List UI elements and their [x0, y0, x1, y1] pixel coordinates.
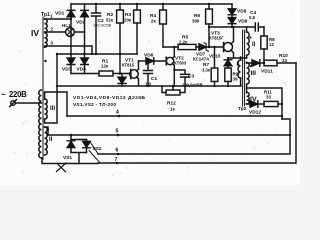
svg-text:51к: 51к [106, 18, 114, 23]
switch X mark [57, 163, 67, 172]
wire winding II T1 top to wire5 [45, 127, 48, 135]
svg-text:1,0: 1,0 [145, 82, 152, 87]
lamp HL1 [66, 28, 75, 37]
svg-text:33: 33 [266, 95, 271, 100]
svg-text:Тр1: Тр1 [41, 12, 50, 18]
svg-text:VD2: VD2 [76, 20, 86, 26]
resistor R2 [119, 4, 121, 74]
wire VT3 emitter row [228, 57, 247, 59]
diode VD10 [224, 58, 232, 60]
svg-text:VS1,VS2 - ТЛ-200: VS1,VS2 - ТЛ-200 [73, 102, 116, 108]
thyristor VS1 [67, 142, 75, 148]
wire gate row VD11 [247, 62, 296, 64]
svg-text:VD4: VD4 [77, 67, 87, 73]
svg-text:6: 6 [116, 148, 119, 154]
resistor R5 [178, 44, 196, 49]
wire T2-IV top row [247, 88, 282, 119]
transformer T2 core [243, 30, 245, 106]
transformer T1 winding II [45, 127, 48, 155]
wire feedback row27 [209, 26, 255, 28]
resistor R12 [162, 86, 185, 93]
diode VD4 [84, 54, 86, 58]
svg-text:VS1: VS1 [63, 155, 72, 161]
svg-text:7: 7 [115, 157, 118, 163]
svg-text:1к: 1к [170, 107, 175, 112]
resistor R1 [99, 71, 113, 76]
diode VD9 [228, 18, 236, 24]
wire zener row [163, 46, 224, 48]
svg-text:5: 5 [116, 129, 119, 135]
diode VD8 [231, 4, 233, 9]
svg-text:VD12: VD12 [249, 110, 261, 116]
svg-text:VD8: VD8 [237, 9, 247, 15]
output wire with switch [42, 158, 98, 164]
svg-text:C3: C3 [188, 74, 194, 80]
transformer T2 winding I [238, 60, 241, 78]
svg-text:0,5: 0,5 [249, 15, 256, 20]
svg-text:1: 1 [50, 14, 53, 19]
svg-text:КТ503: КТ503 [174, 61, 187, 66]
svg-text:VD1-VD4,VD8-VD13 Д226Б: VD1-VD4,VD8-VD13 Д226Б [73, 95, 146, 101]
main lower rail [57, 85, 241, 87]
svg-text:3: 3 [51, 41, 54, 46]
diode VD12 [250, 101, 258, 107]
wire pin3 row [45, 46, 92, 54]
VS1 gate wire [89, 151, 100, 163]
wire winding III top to wire4 [45, 92, 67, 116]
svg-text:12: 12 [269, 42, 274, 47]
transformer T1 winding III [45, 99, 48, 119]
svg-text:3,3к: 3,3к [202, 68, 211, 73]
svg-text:КС147А: КС147А [193, 57, 210, 62]
wire R1 row [71, 73, 131, 75]
transformer T2 winding III [247, 63, 250, 85]
resistor R8 [263, 27, 265, 63]
resistor R4 [162, 4, 164, 47]
svg-text:390: 390 [192, 19, 200, 24]
svg-text:20к: 20к [124, 18, 132, 23]
svg-text:33: 33 [282, 58, 287, 63]
wire 6 [98, 119, 290, 154]
wire minus bus [57, 53, 137, 55]
capacitor C4 [255, 23, 264, 31]
thyristor VS2 [86, 140, 88, 142]
diode VD2 [81, 4, 89, 54]
svg-text:III: III [50, 106, 55, 112]
VS2 gate wire [90, 142, 98, 153]
wire top bus [71, 3, 232, 5]
capacitor C3 [174, 70, 189, 86]
diode VD6 [139, 60, 147, 62]
transistor VT3 [224, 43, 233, 52]
wire VT1 collector to VD6 row [138, 61, 140, 69]
svg-text:КT815: КT815 [122, 63, 135, 68]
svg-text:12к: 12к [101, 64, 109, 69]
wire 4 [67, 115, 282, 117]
wire gate row VD12 [247, 103, 282, 105]
svg-text:VD11: VD11 [261, 69, 273, 75]
wire 5 [48, 134, 290, 136]
svg-text:КТ815Г: КТ815Г [209, 36, 224, 41]
svg-text:2: 2 [51, 27, 54, 32]
diode VD3 [70, 54, 72, 58]
svg-text:HL1: HL1 [62, 23, 71, 28]
resistor R11 [264, 101, 278, 106]
diode VD11 [252, 60, 260, 66]
svg-text:2,2к: 2,2к [179, 40, 188, 45]
transformer T1 winding I primary [39, 90, 42, 158]
wire pin1 row [45, 18, 71, 20]
svg-text:Тр2: Тр2 [238, 106, 247, 112]
resistor R9 [225, 68, 231, 82]
capacitor C2 [92, 4, 101, 54]
transformer T1 core [42, 17, 44, 159]
svg-text:III: III [251, 70, 257, 77]
transformer T2 winding IV [247, 93, 250, 104]
svg-text:IV: IV [31, 28, 39, 38]
svg-text:C1: C1 [151, 76, 157, 82]
svg-text:220В: 220В [9, 90, 27, 99]
diode VD5 [121, 74, 123, 78]
svg-text:39: 39 [233, 77, 238, 82]
capacitor C1 [144, 61, 153, 86]
wire 7 [98, 63, 296, 163]
resistor R6 [208, 4, 210, 47]
wire lamp row pin2 [45, 31, 85, 33]
diode VD1 [67, 4, 75, 54]
svg-text:VD1: VD1 [55, 11, 65, 17]
svg-text:2к: 2к [151, 19, 156, 24]
transistor VT2 [166, 57, 173, 64]
svg-text:II: II [252, 42, 256, 48]
svg-text:4: 4 [116, 110, 119, 116]
transformer T2 winding II [247, 32, 250, 55]
resistor R3 [136, 4, 138, 54]
svg-text:IV: IV [250, 97, 257, 104]
zener VD7 [199, 44, 206, 50]
transistor VT1 [130, 70, 139, 79]
svg-text:VD10: VD10 [209, 54, 221, 59]
svg-text:VD3: VD3 [62, 67, 72, 73]
svg-text:100,0х25В: 100,0х25В [182, 83, 203, 88]
wire left drop to winding III [45, 54, 57, 123]
transformer T1 winding IV (pins 1,2,3) [45, 19, 48, 47]
svg-text:VD9: VD9 [238, 19, 248, 25]
resistor R7 [214, 47, 216, 86]
mains plug [11, 101, 16, 106]
svg-text:VD6: VD6 [144, 53, 154, 59]
paper noise speckles [2, 4, 295, 183]
thyristor block top/bottom [71, 135, 87, 164]
resistor R10 [264, 60, 277, 66]
